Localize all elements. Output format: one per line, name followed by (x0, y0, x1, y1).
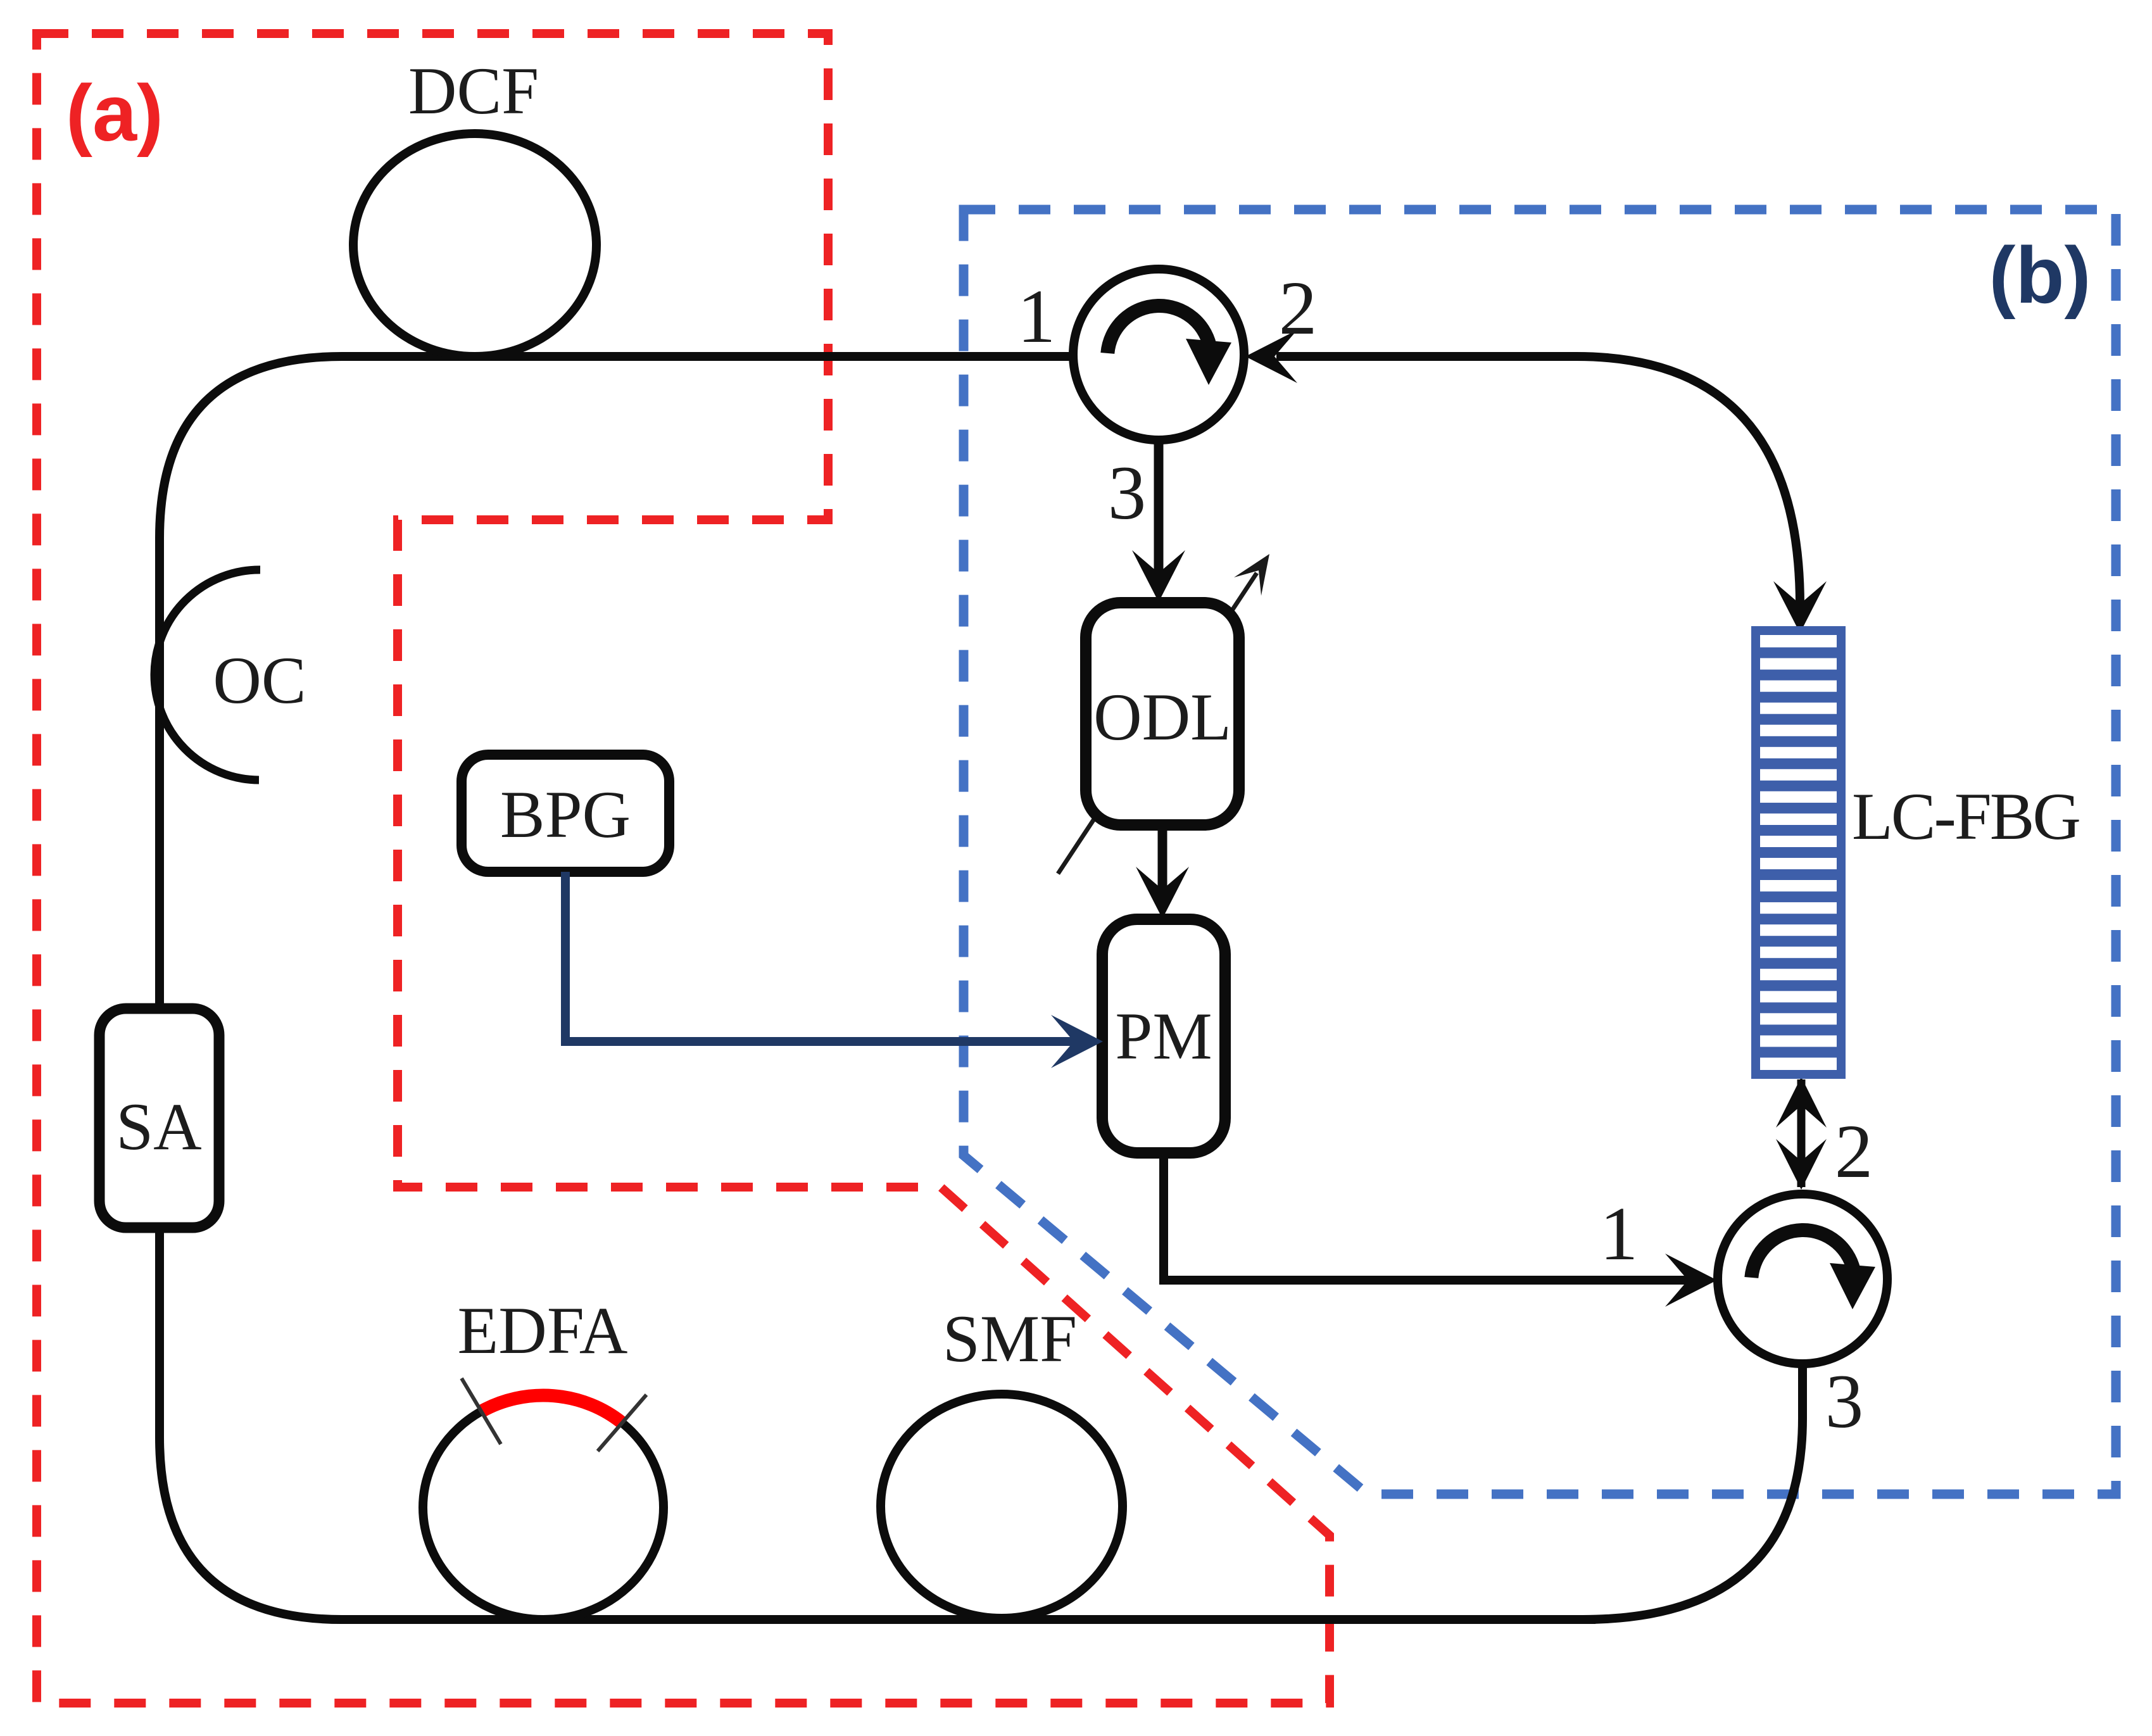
circulator U2 (1718, 1194, 1887, 1364)
svg-text:3: 3 (1825, 1359, 1864, 1444)
saturable absorber SA (99, 1009, 219, 1228)
svg-text:OC: OC (213, 643, 306, 717)
wire circ1 port3 to ODL (1154, 440, 1164, 575)
coil EDFA (423, 1395, 664, 1620)
wire left lower + bottom (160, 1228, 1595, 1620)
grating LC-FBG (1756, 631, 1841, 1074)
optical delay line ODL (1086, 603, 1239, 825)
svg-text:2: 2 (1835, 1109, 1873, 1194)
svg-text:DCF: DCF (408, 54, 539, 128)
dashed box (b) outline (964, 210, 2116, 1494)
svg-text:SMF: SMF (943, 1302, 1077, 1376)
arrowhead into PM (1136, 867, 1189, 919)
phase modulator PM (1102, 919, 1225, 1153)
coupler OC arc (154, 570, 260, 780)
coil DCF (353, 134, 596, 356)
svg-text:(a): (a) (66, 68, 163, 158)
svg-text:LC-FBG: LC-FBG (1852, 779, 2079, 853)
ODL variable arrow (1058, 573, 1257, 874)
bit pattern generator BPG (462, 755, 669, 872)
wire ODL to PM (1158, 825, 1167, 891)
EDFA tick left (462, 1378, 501, 1444)
coil SMF (881, 1394, 1123, 1618)
svg-text:3: 3 (1108, 451, 1147, 536)
arrowhead into LC-FBG top (1773, 581, 1827, 633)
svg-text:PM: PM (1115, 999, 1212, 1073)
RF wire BPG to PM (565, 872, 1076, 1041)
svg-text:EDFA: EDFA (458, 1293, 628, 1368)
arrowhead into circ2 port 1 (1665, 1254, 1717, 1307)
wire circ1 port2 to LC-FBG (1276, 356, 1800, 605)
wire circ2 port3 to bottom loop (1583, 1363, 1803, 1620)
circulator U1 (1073, 269, 1244, 440)
svg-text:ODL: ODL (1093, 680, 1231, 754)
svg-text:1: 1 (1600, 1192, 1639, 1276)
svg-text:2: 2 (1279, 266, 1318, 351)
wire top (loop) (160, 356, 1073, 1009)
svg-text:SA: SA (116, 1090, 202, 1164)
arrowhead into circ1 port 2 (1245, 330, 1297, 383)
dashed box (a) cavity outline (37, 34, 1330, 1703)
svg-text:(b): (b) (1989, 230, 2091, 320)
svg-text:BPG: BPG (500, 777, 631, 852)
wire PM to circ2 port1 (1164, 1153, 1689, 1280)
EDFA pump red arc (481, 1395, 622, 1423)
double arrow LC-FBG / circ2 (1797, 1079, 1806, 1187)
svg-text:1: 1 (1017, 274, 1056, 359)
arrowhead into PM (RF) (1051, 1015, 1103, 1068)
EDFA tick right (598, 1395, 646, 1451)
arrowhead into ODL (1132, 550, 1185, 602)
